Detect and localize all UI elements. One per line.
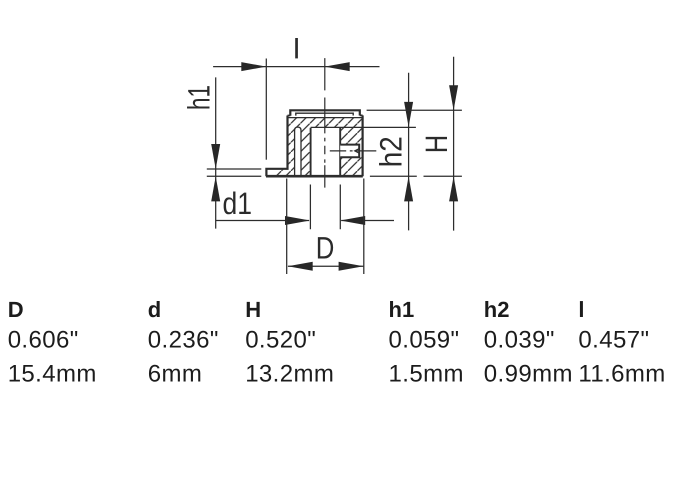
svg-text:H: H <box>245 297 261 322</box>
svg-text:D: D <box>8 297 24 322</box>
svg-text:0.457": 0.457" <box>578 327 649 354</box>
svg-text:0.520": 0.520" <box>245 327 316 354</box>
svg-text:0.606": 0.606" <box>8 327 79 354</box>
shaft bore (white) <box>311 127 341 176</box>
svg-text:D: D <box>316 231 335 266</box>
dimension D <box>287 179 364 275</box>
table header row <box>8 297 585 322</box>
svg-text:H: H <box>419 135 454 154</box>
dimension h1 <box>181 77 261 228</box>
center line (vertical axis) <box>324 58 326 188</box>
svg-text:0.059": 0.059" <box>389 327 460 354</box>
table inch row <box>8 327 650 354</box>
svg-text:h2: h2 <box>373 136 408 167</box>
svg-text:l: l <box>578 297 584 322</box>
svg-text:h2: h2 <box>484 297 510 322</box>
svg-text:0.039": 0.039" <box>484 327 555 354</box>
svg-text:11.6mm: 11.6mm <box>578 360 665 387</box>
svg-text:15.4mm: 15.4mm <box>8 360 97 387</box>
svg-text:0.236": 0.236" <box>148 327 219 354</box>
svg-text:d1: d1 <box>223 186 253 221</box>
svg-text:0.99mm: 0.99mm <box>484 360 573 387</box>
dimension h2 <box>370 73 417 231</box>
knob body hatched section <box>275 117 363 176</box>
svg-text:d: d <box>148 297 161 322</box>
set screw hole (white) <box>340 144 361 159</box>
set screw axis line with open arrow <box>330 148 377 153</box>
dimension l <box>213 38 379 160</box>
d1 extension lines under knob <box>310 185 340 230</box>
knob body outline <box>266 115 363 176</box>
svg-text:h1: h1 <box>181 85 216 110</box>
dimension d1 <box>216 186 394 225</box>
svg-text:1.5mm: 1.5mm <box>389 360 464 387</box>
table mm row <box>8 360 666 387</box>
svg-text:6mm: 6mm <box>148 360 203 387</box>
cap U1 top <box>290 110 360 115</box>
dimension H <box>367 57 462 231</box>
svg-text:h1: h1 <box>389 297 415 322</box>
svg-text:13.2mm: 13.2mm <box>245 360 334 387</box>
collet slot (white) <box>295 127 301 176</box>
bore top line / h2 upper extension <box>311 126 416 128</box>
